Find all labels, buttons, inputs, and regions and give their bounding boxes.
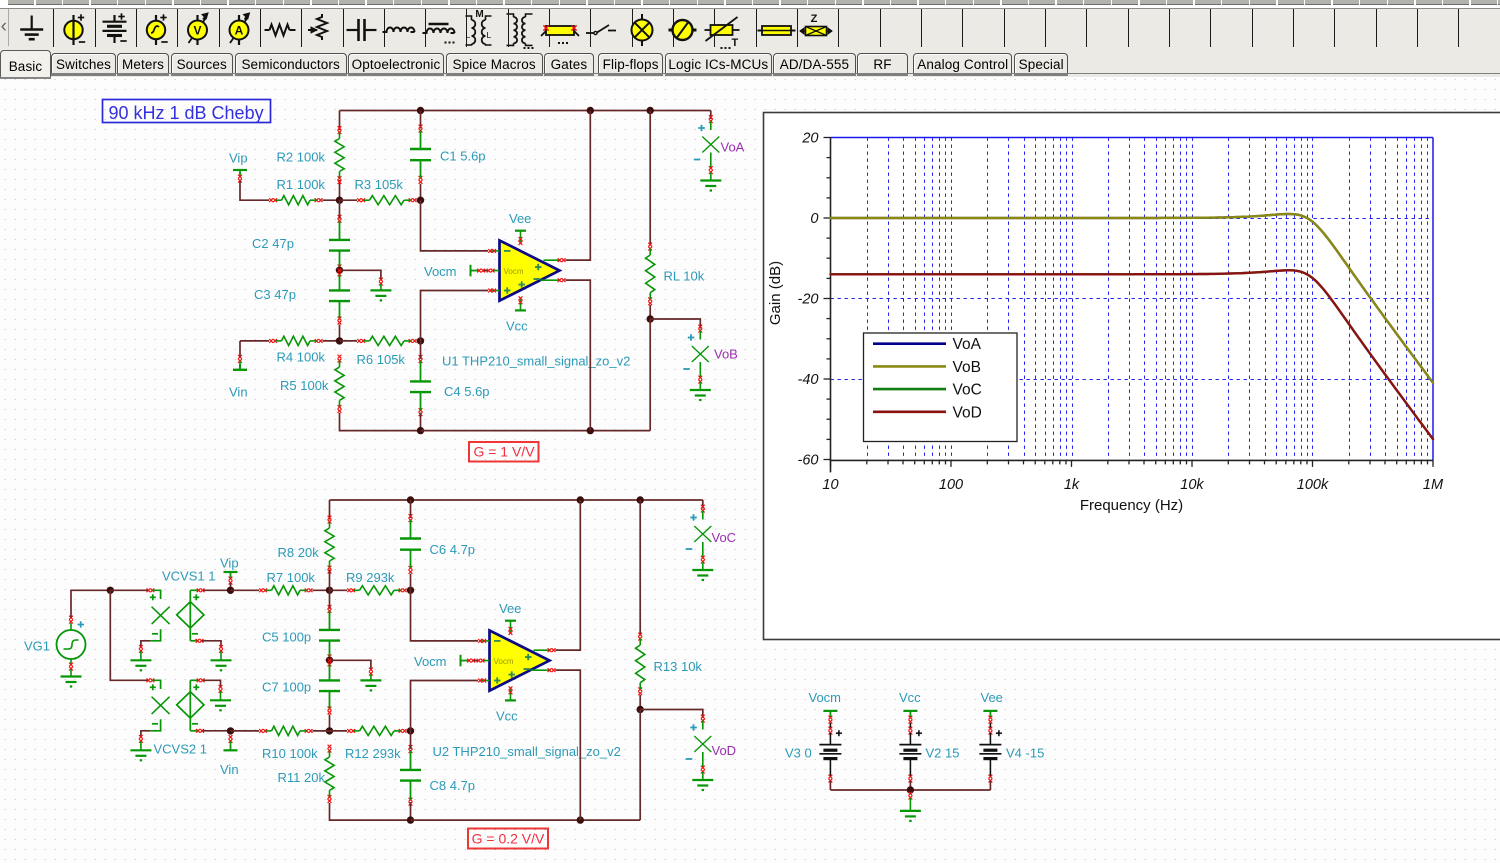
svg-text:R9 293k: R9 293k: [346, 570, 395, 585]
wire top rail: [340, 110, 711, 112]
node junction R9/C6/inv: [407, 587, 414, 594]
capacitor C3 47p: [338, 269, 342, 273]
toolbar icon switch: [586, 32, 594, 34]
node junction supply rail: [907, 786, 914, 793]
svg-text:VoB: VoB: [714, 347, 738, 362]
terminal Vocm (supply): [823, 710, 837, 712]
label box G = 1 V/V: [469, 442, 539, 462]
capacitor C7 100p: [328, 659, 332, 663]
svg-text:VCVS2 1: VCVS2 1: [154, 742, 207, 757]
node junction R12/C8/non-inv: [407, 727, 414, 734]
resistor R11 20k: [328, 745, 332, 749]
svg-text:R5 100k: R5 100k: [280, 378, 329, 393]
svg-text:C1 5.6p: C1 5.6p: [440, 149, 486, 164]
svg-text:1M: 1M: [1423, 477, 1444, 493]
legend entry VoA: [873, 342, 946, 345]
wire Vip junction to R7: [231, 589, 260, 591]
resistor R13 10k: [639, 500, 641, 635]
toolbar icon motor: [669, 29, 697, 32]
svg-text:G = 1 V/V: G = 1 V/V: [473, 444, 535, 460]
wire junction down to VCVS2 row: [110, 590, 148, 680]
wire R2 branch verticals: [339, 111, 341, 131]
svg-text:L: L: [466, 30, 471, 40]
node junction R13 top: [637, 496, 644, 503]
svg-text:Vip: Vip: [229, 151, 248, 166]
wire bottom rail: [421, 430, 651, 432]
curve VoB (olive): [831, 214, 1434, 383]
resistor R1 100k: [269, 198, 273, 202]
svg-text:C4 5.6p: C4 5.6p: [444, 384, 490, 399]
wire inverting input 2: [411, 590, 479, 641]
toolbar icon resistor: [265, 29, 270, 31]
svg-text:VoC: VoC: [953, 382, 982, 399]
node junction R3/C1/inverting: [417, 197, 424, 204]
legend entry VoC: [873, 388, 946, 391]
terminal Vin (bottom): [229, 735, 233, 739]
svg-text:Vee: Vee: [509, 211, 531, 226]
capacitor C5 100p: [328, 605, 332, 609]
wire VCVS1 diamond+ to rail: [189, 590, 191, 601]
node junction C8 bottom rail: [407, 816, 414, 823]
toolbar icon ground: [31, 16, 33, 30]
wire VCVS1 diamond- to ground: [189, 628, 191, 641]
svg-text:Frequency (Hz): Frequency (Hz): [1080, 497, 1183, 514]
node junction R1/R2/R3/C2: [336, 197, 343, 204]
output pins of U2 THP210: [534, 649, 551, 651]
svg-text:V3 0: V3 0: [785, 746, 812, 761]
svg-text:Vocm: Vocm: [504, 267, 524, 276]
svg-text:Vee: Vee: [499, 601, 521, 616]
node junction Vip: [227, 587, 234, 594]
resistor R5 100k: [338, 355, 342, 359]
resistor R2 100k: [338, 126, 342, 130]
resistor R12 293k: [330, 730, 348, 732]
wire U1 out- to bottom rail: [566, 280, 591, 430]
x axis: [830, 459, 1433, 461]
ground supply rail: [909, 792, 913, 796]
diagram panel: [764, 113, 1500, 640]
svg-text:-40: -40: [798, 372, 819, 388]
wire VCVS2 diamond+ to ground right: [189, 680, 191, 691]
node junction bottom out- 2: [577, 816, 584, 823]
node junction R10/R11/R12/C7: [326, 727, 333, 734]
terminal Vip (bottom): [224, 571, 238, 573]
svg-text:V: V: [193, 24, 201, 38]
wire VCVS1 X- to ground: [141, 641, 150, 647]
wire bottom rail 2: [411, 819, 641, 821]
svg-text:R3 105k: R3 105k: [355, 177, 404, 192]
voltage pin VoD: [640, 710, 703, 719]
resistor R8 20k: [329, 500, 331, 520]
ground VCVS1 diamond-: [211, 659, 232, 661]
curve VoC (green, under VoD): [831, 270, 1434, 439]
wire U1 out+ to top rail: [566, 111, 591, 261]
resistor R7 100k: [259, 588, 263, 592]
terminal Vcc (supply): [903, 710, 917, 712]
label box G = 0.2 V/V: [468, 829, 548, 849]
svg-text:C5 100p: C5 100p: [262, 630, 311, 645]
node junction C5/C7/gnd: [326, 657, 333, 664]
battery V2: [909, 723, 911, 728]
output pins of U1 THP210: [544, 259, 561, 261]
wire to ground mid: [340, 270, 381, 279]
capacitor C6 4.7p: [410, 500, 412, 518]
svg-text:C8 4.7p: C8 4.7p: [430, 778, 476, 793]
toolbar icon ammeter: [238, 15, 240, 45]
svg-text:Vocm: Vocm: [494, 657, 514, 666]
svg-text:Vcc: Vcc: [506, 319, 528, 334]
svg-text:Vocm: Vocm: [424, 264, 457, 279]
node junction R13 bottom / VoD: [637, 706, 644, 713]
terminal Vee of U1 THP210: [515, 230, 526, 232]
toolbar icon transformer: [514, 17, 518, 43]
svg-text:20: 20: [801, 131, 818, 147]
grid vertical dashed lines: [868, 138, 1428, 461]
wire top rail 2: [330, 499, 703, 501]
resistor R10 100k: [259, 729, 263, 733]
svg-text:VoD: VoD: [953, 404, 982, 421]
battery V3: [829, 723, 831, 728]
wire non-inverting input 2: [411, 681, 479, 731]
svg-text:R2 100k: R2 100k: [277, 150, 326, 165]
capacitor C8 4.7p: [409, 745, 413, 749]
node junction Vin (bottom): [227, 727, 234, 734]
node junction C2/C3/gnd: [336, 267, 343, 274]
capacitor C2 47p: [338, 215, 342, 219]
y axis ticks and labels: [824, 138, 831, 460]
toolbar icon potentiometer: [317, 14, 327, 40]
toolbar icon lamp: [641, 14, 643, 46]
y axis: [830, 138, 832, 473]
svg-text:Vee: Vee: [981, 690, 1003, 705]
ground VCVS2 X-: [130, 749, 151, 751]
node junction out+ 2: [577, 496, 584, 503]
curve VoD (dark red): [831, 270, 1434, 439]
svg-text:10k: 10k: [1180, 477, 1204, 493]
svg-text:R4 100k: R4 100k: [277, 350, 326, 365]
ground C2/C3 node: [370, 289, 391, 291]
ground VCVS2 diamond+: [210, 699, 231, 701]
resistor R9 293k: [330, 589, 348, 591]
wire inverting input: [421, 200, 489, 251]
voltage pin VoB: [650, 319, 700, 329]
wire Vip to R1: [240, 181, 269, 200]
node junction C1 top: [417, 107, 424, 114]
svg-text:C2 47p: C2 47p: [252, 236, 294, 251]
svg-text:Vcc: Vcc: [496, 709, 518, 724]
wire R5 to bottom rail: [340, 413, 421, 431]
terminal Vcc of U2 THP210: [505, 699, 516, 701]
svg-text:VCVS1 1: VCVS1 1: [162, 569, 215, 584]
wire supply rail: [830, 789, 990, 791]
wire V2 to rail: [909, 781, 911, 790]
node junction C6 top: [407, 496, 414, 503]
terminal Vip: [233, 169, 247, 171]
svg-text:VoB: VoB: [953, 359, 981, 376]
wire Vin junction to R10: [231, 730, 260, 732]
toolbar icon battery: [113, 15, 115, 22]
resistor R6 105k: [340, 340, 358, 342]
wire non-inverting input: [421, 291, 489, 341]
svg-text:Vin: Vin: [220, 762, 239, 777]
svg-text:R10 100k: R10 100k: [262, 746, 318, 761]
node junction out+ top: [587, 107, 594, 114]
svg-text:T: T: [732, 37, 739, 49]
svg-text:VG1: VG1: [24, 639, 50, 654]
svg-text:Vocm: Vocm: [414, 654, 447, 669]
node junction VG1 split: [107, 587, 114, 594]
svg-text:VoD: VoD: [712, 743, 737, 758]
svg-text:R13 10k: R13 10k: [654, 659, 703, 674]
controlled source VCVS2 control input X: [147, 678, 151, 682]
svg-text:100k: 100k: [1297, 477, 1329, 493]
svg-text:R7 100k: R7 100k: [267, 570, 316, 585]
capacitor C4 5.6p: [419, 355, 423, 359]
toolbar icon inductor: [383, 28, 415, 33]
node junction RL top: [647, 107, 654, 114]
terminal Vee of U2 THP210: [505, 620, 516, 622]
svg-text:R12 293k: R12 293k: [345, 746, 401, 761]
terminal Vocm of U1 THP210: [470, 265, 472, 277]
wire VCVS2 X- to ground: [141, 731, 150, 737]
battery V4: [989, 723, 991, 728]
grid horizontal dashed lines: [831, 219, 1434, 380]
svg-text:A: A: [235, 24, 244, 38]
svg-text:90 kHz 1 dB Cheby: 90 kHz 1 dB Cheby: [109, 103, 264, 123]
resistor R3 105k: [340, 199, 358, 201]
wire VG1 to junction: [71, 590, 110, 617]
resistor RL 10k: [649, 111, 651, 245]
toolbar icon voltage source: [72, 15, 74, 45]
controlled source VCVS1 control input X: [147, 588, 151, 592]
node junction R7/R8/R9/C5: [326, 587, 333, 594]
voltage pin VoA: [710, 111, 712, 120]
terminal Vocm of U2 THP210: [460, 655, 462, 667]
wire to ground mid 2: [330, 660, 371, 669]
curve VoA (navy, under VoB): [831, 214, 1434, 383]
svg-text:VoA: VoA: [953, 336, 982, 353]
toolbar icon voltage regulator T: [711, 25, 733, 35]
terminal Vcc of U1 THP210: [515, 309, 526, 311]
svg-text:C6 4.7p: C6 4.7p: [430, 542, 476, 557]
svg-text:C3 47p: C3 47p: [254, 287, 296, 302]
legend entry VoD: [873, 410, 946, 413]
op-amp U2 THP210: [490, 630, 550, 690]
ground VCVS1 X-: [130, 659, 151, 661]
toolbar icon jumper: [758, 30, 796, 32]
svg-text:-20: -20: [798, 292, 819, 308]
node junction bottom out-: [587, 427, 594, 434]
toolbar icon fuse: [541, 30, 547, 36]
toolbar icon sine generator: [155, 15, 157, 45]
x axis ticks and labels: [831, 460, 1434, 467]
terminal Vin (top circuit): [238, 355, 242, 359]
svg-text:V2 15: V2 15: [926, 746, 960, 761]
svg-text:M: M: [475, 9, 483, 20]
capacitor C1 5.6p: [420, 111, 422, 129]
svg-text:1k: 1k: [1064, 477, 1080, 493]
svg-text:RL 10k: RL 10k: [664, 269, 705, 284]
legend box: [864, 333, 1018, 442]
controlled source VCVS2 diamond: [177, 692, 204, 718]
svg-text:V4 -15: V4 -15: [1006, 746, 1044, 761]
wire R11 to bottom rail: [330, 803, 411, 820]
wire U2 out+ to top rail: [556, 500, 581, 650]
svg-text:R6 105k: R6 105k: [357, 352, 406, 367]
ground VG1: [70, 659, 72, 664]
wire junction to VCVS1: [110, 589, 148, 591]
node junction RL bottom / VoB: [647, 315, 654, 322]
plot frame blue top/right: [831, 137, 1434, 139]
label box 90 kHz 1 dB Cheby: [103, 100, 271, 123]
wire V4 to rail: [989, 781, 991, 790]
svg-text:Vcc: Vcc: [899, 690, 921, 705]
node junction C4 bottom rail: [417, 427, 424, 434]
svg-text:U2 THP210_small_signal_zo_v2: U2 THP210_small_signal_zo_v2: [433, 744, 621, 759]
wire VCVS2 diamond- to output rail: [189, 718, 191, 731]
svg-text:10: 10: [822, 477, 838, 493]
voltage pin VoC: [702, 500, 704, 509]
svg-text:G = 0.2 V/V: G = 0.2 V/V: [472, 831, 545, 847]
wire RL to bottom rail: [649, 319, 651, 431]
svg-text:0: 0: [810, 211, 818, 227]
svg-text:R8 20k: R8 20k: [278, 545, 320, 560]
svg-text:Gain (dB): Gain (dB): [767, 261, 784, 325]
generator VG1: [57, 630, 86, 659]
wire R13 to bottom rail: [639, 710, 641, 821]
ground C5/C7 node: [360, 679, 381, 681]
toolbar icon capacitor: [347, 29, 359, 31]
wire U2 out- to bottom rail: [556, 670, 581, 820]
svg-text:Vocm: Vocm: [809, 690, 842, 705]
svg-text:100: 100: [939, 477, 963, 493]
svg-text:R1 100k: R1 100k: [277, 177, 326, 192]
svg-text:Vip: Vip: [220, 556, 239, 571]
svg-text:-60: -60: [798, 453, 819, 469]
legend entry VoB: [873, 365, 946, 368]
toolbar icon inductor with core: [423, 29, 455, 34]
svg-text:C7 100p: C7 100p: [262, 680, 311, 695]
svg-text:R11 20k: R11 20k: [278, 770, 326, 785]
op-amp U1 THP210: [500, 240, 560, 300]
toolbar icon voltmeter: [196, 15, 198, 45]
wire R1 to node: [323, 199, 340, 201]
wire V3 to rail: [829, 781, 831, 790]
terminal Vee (supply): [983, 710, 997, 712]
svg-text:L: L: [487, 30, 492, 40]
resistor R4 100k: [240, 340, 269, 342]
node junction R6/C4/non-inv: [417, 337, 424, 344]
svg-text:U1 THP210_small_signal_zo_v2: U1 THP210_small_signal_zo_v2: [442, 354, 630, 369]
controlled source VCVS1 diamond: [177, 602, 204, 628]
svg-text:Vin: Vin: [229, 385, 248, 400]
svg-text:VoC: VoC: [712, 530, 737, 545]
node junction R4/R5/R6/C3: [336, 337, 343, 344]
svg-text:VoA: VoA: [721, 140, 745, 155]
svg-text:Z: Z: [811, 13, 818, 25]
